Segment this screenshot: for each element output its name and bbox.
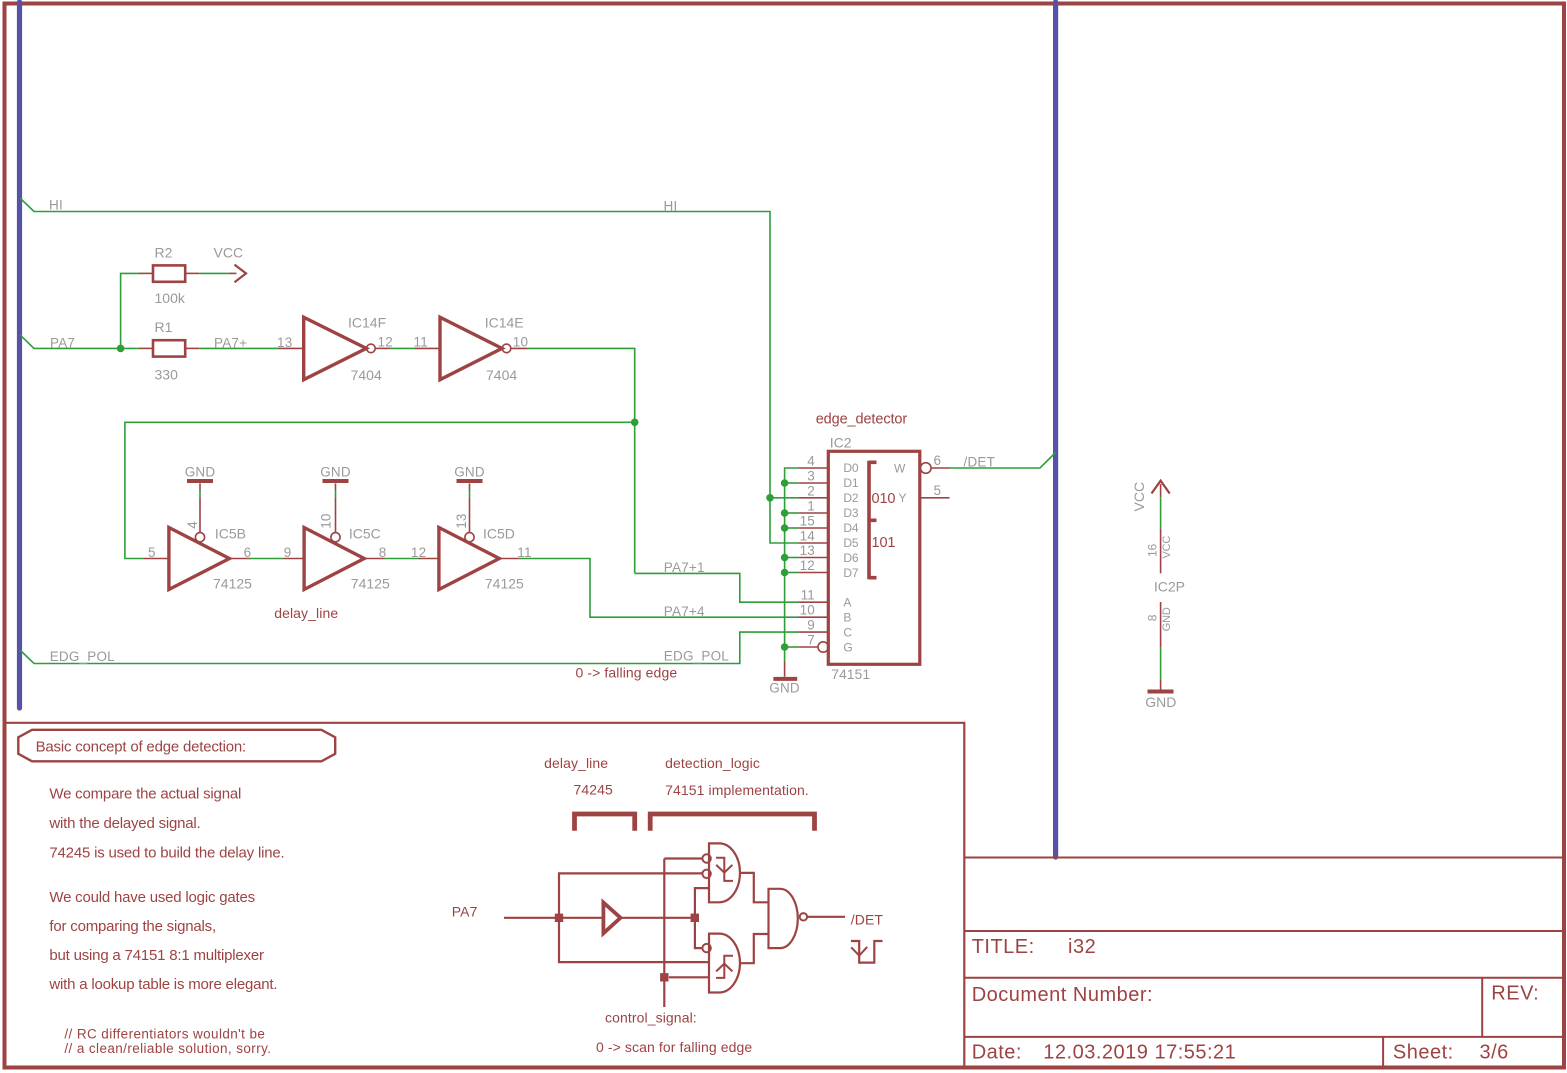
svg-text:EDG_POL: EDG_POL — [664, 649, 729, 664]
svg-text:TITLE:: TITLE: — [972, 936, 1035, 958]
svg-text:D5: D5 — [843, 536, 858, 550]
svg-text:We could have used logic gates: We could have used logic gates — [49, 889, 255, 906]
svg-text:12: 12 — [411, 545, 426, 560]
svg-text:A: A — [843, 596, 851, 610]
concept falling pulse symbol — [851, 941, 883, 963]
svg-text:PA7+4: PA7+4 — [664, 604, 705, 619]
junction PA7 — [117, 345, 125, 353]
svg-text:2: 2 — [807, 483, 815, 498]
svg-text:0 -> falling edge: 0 -> falling edge — [576, 664, 678, 680]
svg-text:IC14F: IC14F — [348, 315, 386, 331]
svg-text:GND: GND — [1145, 694, 1176, 710]
pin stub D3 — [798, 512, 828, 514]
svg-text:11: 11 — [414, 334, 428, 349]
concept falling edge symbol — [716, 858, 733, 881]
svg-text:GND: GND — [185, 465, 216, 480]
inverter IC14F — [304, 317, 367, 380]
svg-text:but using a 74151 8:1 multiple: but using a 74151 8:1 multiplexer — [49, 947, 264, 964]
svg-text:for comparing the signals,: for comparing the signals, — [49, 918, 216, 935]
svg-text:13: 13 — [800, 543, 815, 558]
IC5B enable pin — [199, 483, 201, 490]
svg-text:330: 330 — [155, 366, 179, 382]
wire net PA7+1 to mux A — [635, 573, 799, 602]
ground GND below mux — [784, 662, 786, 677]
svg-text:6: 6 — [934, 453, 942, 468]
buffer IC5C — [304, 528, 364, 590]
concept buffer triangle — [603, 903, 620, 934]
svg-text:HI: HI — [664, 199, 678, 214]
junction D3 — [781, 509, 789, 517]
pin stub D5 — [798, 542, 828, 544]
svg-text:Date:: Date: — [972, 1042, 1022, 1064]
svg-text:IC14E: IC14E — [485, 315, 524, 331]
svg-text:3/6: 3/6 — [1480, 1042, 1509, 1064]
wire HI branch to D2 — [770, 497, 798, 499]
ground GND above IC5B — [187, 479, 213, 483]
svg-text:7: 7 — [807, 633, 815, 648]
svg-text:D6: D6 — [843, 551, 858, 565]
junction D4 — [781, 524, 789, 532]
junction D7 — [781, 569, 789, 577]
inverter IC14E — [440, 317, 502, 380]
svg-text:// a clean/reliable solution,: // a clean/reliable solution, sorry. — [64, 1041, 271, 1056]
svg-text:PA7+1: PA7+1 — [664, 560, 705, 575]
resistor R1 — [153, 340, 185, 356]
svg-text:with a lookup table is more el: with a lookup table is more elegant. — [48, 976, 277, 993]
wire net /DET to bus — [950, 453, 1056, 469]
pin stub D2 — [798, 497, 828, 499]
svg-text:PA7: PA7 — [50, 335, 75, 350]
svg-text:Document Number:: Document Number: — [972, 984, 1153, 1006]
svg-text:/DET: /DET — [964, 454, 996, 469]
pin stub D4 — [798, 527, 828, 529]
wire GND branch D4 — [785, 527, 799, 529]
svg-text:VCC: VCC — [214, 245, 244, 261]
svg-text:with the delayed signal.: with the delayed signal. — [48, 815, 200, 832]
svg-text:5: 5 — [934, 483, 942, 498]
svg-text:D7: D7 — [843, 566, 858, 580]
buffer IC5B — [169, 528, 230, 590]
junction delay feed — [631, 419, 639, 427]
wire net EDG_POL from bus to mux C — [20, 632, 798, 663]
concept rising edge symbol — [716, 956, 733, 978]
concept wire PA7 — [504, 917, 602, 919]
wire GND branch D1 — [785, 482, 799, 484]
pin stub Y — [920, 497, 950, 499]
ground GND above IC5D — [457, 479, 483, 483]
svg-text:C: C — [843, 625, 852, 639]
svg-text:74151: 74151 — [831, 666, 870, 682]
title block outline — [964, 858, 1565, 1067]
svg-text:B: B — [843, 611, 851, 625]
svg-text:control_signal:: control_signal: — [605, 1009, 697, 1025]
wire net PA7+ — [199, 347, 278, 349]
svg-text:5: 5 — [148, 545, 156, 560]
concept bracket detection_logic — [650, 814, 814, 831]
svg-text:7404: 7404 — [351, 367, 382, 383]
svg-text:i32: i32 — [1068, 936, 1096, 958]
wire IC5B to IC5C — [250, 558, 284, 560]
svg-text:11: 11 — [801, 588, 815, 603]
ground bar IC2P — [1148, 690, 1174, 694]
IC5C enable pin — [335, 483, 337, 490]
concept junction square 2 — [691, 914, 699, 922]
svg-text:12: 12 — [378, 334, 393, 349]
concept wire control signal vertical — [663, 859, 665, 1008]
svg-text:10: 10 — [319, 513, 334, 528]
wire GND branch D7 — [785, 572, 799, 574]
svg-text:12: 12 — [800, 558, 815, 573]
note title octagon — [18, 730, 335, 762]
junction D1 — [781, 479, 789, 487]
concept NAND gate — [769, 889, 798, 948]
svg-text:PA7: PA7 — [452, 904, 478, 920]
svg-text:detection_logic: detection_logic — [665, 755, 760, 771]
svg-text:EDG_POL: EDG_POL — [50, 649, 115, 664]
svg-text:12.03.2019 17:55:21: 12.03.2019 17:55:21 — [1043, 1042, 1236, 1064]
svg-text:74245 is used to build the del: 74245 is used to build the delay line. — [49, 845, 284, 862]
svg-text:GND: GND — [320, 465, 351, 480]
concept lower gate input bubble — [702, 944, 710, 952]
svg-text:IC5B: IC5B — [215, 526, 246, 542]
svg-text:74125: 74125 — [213, 576, 252, 592]
concept upper gate input bubbles — [702, 854, 710, 862]
svg-text:delay_line: delay_line — [544, 755, 608, 771]
svg-text:W: W — [894, 462, 906, 476]
output pin W bubble and stub — [921, 463, 932, 474]
wire PA7 branch up to R2 — [121, 273, 139, 348]
bus line right — [1053, 2, 1058, 857]
svg-text:delay_line: delay_line — [274, 605, 338, 621]
svg-text:IC2P: IC2P — [1154, 579, 1185, 595]
svg-text:101: 101 — [872, 535, 896, 551]
svg-text:13: 13 — [454, 513, 469, 528]
concept wire /DET output — [807, 916, 845, 918]
concept wire delayed branch — [695, 888, 709, 914]
svg-text:15: 15 — [800, 514, 815, 529]
svg-text:IC5D: IC5D — [483, 526, 515, 542]
svg-text:// RC differentiators wouldn't: // RC differentiators wouldn't be — [64, 1026, 265, 1041]
svg-text:edge_detector: edge_detector — [816, 411, 908, 427]
svg-text:GND: GND — [769, 680, 800, 695]
svg-text:Basic concept of edge detectio: Basic concept of edge detection: — [36, 739, 246, 756]
svg-text:74125: 74125 — [351, 576, 390, 592]
svg-text:8: 8 — [379, 545, 387, 560]
svg-text:010: 010 — [872, 491, 896, 507]
svg-text:VCC: VCC — [1161, 536, 1173, 559]
pin stub D0 — [798, 467, 828, 469]
wire GND branch D6 — [785, 557, 799, 559]
svg-text:D3: D3 — [843, 506, 858, 520]
bus line left — [17, 2, 22, 708]
svg-text:3: 3 — [807, 469, 815, 484]
concept bracket delay_line — [575, 814, 635, 831]
svg-text:HI: HI — [49, 198, 63, 213]
svg-text:D0: D0 — [843, 461, 858, 475]
svg-text:74151 implementation.: 74151 implementation. — [665, 782, 809, 798]
IC5D enable pin — [469, 483, 471, 490]
wire net PA7+4 from IC5D out to mux B — [519, 559, 798, 618]
wire net HI from bus to mux — [20, 198, 798, 543]
wire R2 to VCC — [199, 272, 230, 274]
pin stub D1 — [798, 482, 828, 484]
multiplexer IC2 74151 body — [828, 451, 920, 664]
svg-text:Sheet:: Sheet: — [1393, 1042, 1454, 1064]
svg-text:4: 4 — [185, 521, 200, 529]
svg-text:0 -> scan for falling edge: 0 -> scan for falling edge — [596, 1039, 752, 1055]
concept wire lower gate to NAND — [740, 934, 769, 963]
svg-text:13: 13 — [277, 335, 292, 350]
svg-text:6: 6 — [244, 545, 252, 560]
svg-text:Y: Y — [899, 491, 907, 505]
note box — [5, 723, 964, 1066]
svg-text:REV:: REV: — [1491, 983, 1539, 1005]
buffer IC5D — [439, 528, 499, 590]
wire net PA7 from bus — [20, 335, 139, 349]
concept wire undelayed branch — [559, 873, 702, 921]
concept junction square 3 — [660, 973, 668, 981]
svg-text:9: 9 — [807, 618, 815, 633]
pin stub D7 — [798, 572, 828, 574]
junction G — [781, 643, 789, 651]
pin stub G with bubble — [798, 646, 818, 648]
pin stub D6 — [798, 557, 828, 559]
svg-text:R1: R1 — [155, 319, 173, 335]
power symbol IC2P VCC pin 16 — [1160, 484, 1162, 497]
svg-text:IC2: IC2 — [830, 435, 852, 451]
svg-text:10: 10 — [513, 334, 528, 349]
power symbol IC2P GND pin 8 — [1160, 602, 1162, 648]
resistor R2 — [153, 265, 185, 281]
pin stub A — [798, 601, 828, 603]
svg-text:11: 11 — [517, 545, 531, 560]
wire IC5C to IC5D — [385, 558, 419, 560]
svg-text:100k: 100k — [155, 290, 186, 306]
wire branch to IC5B input — [125, 422, 635, 558]
pin stub C — [798, 631, 828, 633]
wire GND branch G — [785, 646, 799, 648]
svg-text:D2: D2 — [843, 491, 858, 505]
junction HI/D2 — [766, 494, 774, 502]
wire GND net vertical at mux — [785, 468, 799, 662]
ground GND above IC5C — [323, 479, 349, 483]
svg-text:D1: D1 — [843, 476, 858, 490]
svg-text:14: 14 — [800, 529, 816, 544]
svg-text:74245: 74245 — [574, 782, 614, 798]
concept AND gate upper (falling edge) — [709, 843, 740, 902]
concept junction square 1 — [555, 914, 563, 922]
svg-text:We compare the actual signal: We compare the actual signal — [49, 785, 241, 802]
svg-text:R2: R2 — [155, 245, 173, 261]
svg-text:GND: GND — [454, 465, 485, 480]
wire IC14F out to IC14E in — [391, 347, 416, 349]
wire IC14E out down to delay line feed — [527, 348, 635, 573]
svg-text:8: 8 — [1145, 614, 1159, 621]
power VCC arrow symbol — [230, 272, 237, 274]
wire GND branch D3 — [785, 512, 799, 514]
svg-text:4: 4 — [807, 454, 815, 469]
svg-text:/DET: /DET — [851, 912, 884, 928]
svg-text:VCC: VCC — [1131, 482, 1147, 512]
svg-text:74125: 74125 — [485, 576, 524, 592]
concept AND gate lower (rising edge) — [709, 934, 740, 993]
svg-text:D4: D4 — [843, 521, 858, 535]
svg-text:7404: 7404 — [486, 367, 517, 383]
svg-text:GND: GND — [1161, 607, 1173, 631]
junction D6 — [781, 554, 789, 562]
svg-text:PA7+: PA7+ — [214, 335, 247, 350]
pin stub B — [798, 616, 828, 618]
svg-text:IC5C: IC5C — [349, 526, 381, 542]
svg-text:9: 9 — [284, 545, 292, 560]
concept wire upper gate to NAND — [740, 873, 769, 902]
svg-text:16: 16 — [1145, 544, 1159, 557]
svg-text:1: 1 — [807, 499, 815, 514]
svg-text:10: 10 — [800, 603, 815, 618]
lookup bracket — [869, 461, 877, 579]
svg-text:G: G — [843, 640, 852, 654]
